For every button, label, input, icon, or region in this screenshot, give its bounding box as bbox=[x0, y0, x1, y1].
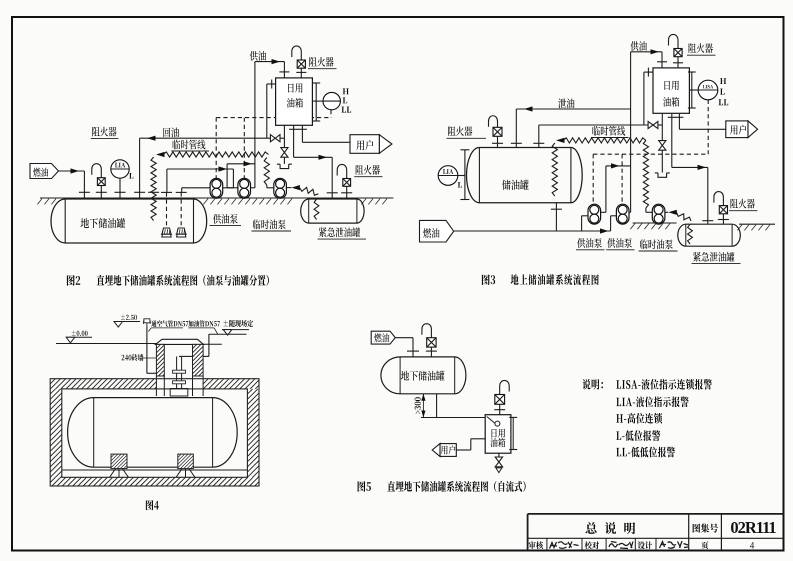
valve drain line fig3 bbox=[648, 121, 653, 128]
wire day3 drain stub bbox=[661, 113, 663, 141]
pump P2 fig3 bbox=[616, 204, 629, 224]
flange tick suction1 bbox=[161, 191, 172, 193]
wire day tank to instrument bbox=[312, 100, 323, 102]
vent gooseneck tank3 bbox=[489, 116, 498, 128]
hose to pump3 bbox=[264, 158, 269, 186]
ground hatch left bbox=[37, 199, 56, 205]
label 临时油泵 fig2 bbox=[253, 219, 286, 229]
svg-text:4: 4 bbox=[750, 541, 755, 551]
node 用户 flag fig2 bbox=[350, 135, 379, 154]
drain valve fig5 bbox=[498, 453, 500, 457]
wire arrester to day3 bbox=[677, 57, 679, 68]
vent gooseneck day tank fig2 bbox=[292, 46, 302, 60]
flange tick day tank inlet bbox=[279, 71, 289, 73]
label LL fig3 bbox=[719, 99, 729, 105]
label 阻火器 emergency fig3 bbox=[730, 199, 754, 209]
label 紧急泄油罐 fig3 bbox=[693, 252, 734, 262]
ground hatch pump pad fig2 bbox=[203, 199, 292, 205]
wire hose to pump3 inlet bbox=[266, 185, 268, 188]
label 阻火器 day tank fig2 bbox=[309, 57, 333, 67]
tank 日用油箱 fig5 bbox=[485, 415, 511, 454]
float valve fig5 bbox=[487, 417, 495, 424]
wire hose to pump3 fig3 bbox=[645, 208, 647, 212]
wire emergency feed fig3 bbox=[671, 113, 673, 167]
tank 地下储油罐 bbox=[51, 199, 207, 243]
arrow supply to day tank bbox=[272, 59, 281, 64]
dashed signal pump2 fig3 bbox=[621, 154, 623, 204]
label 总说明 bbox=[586, 522, 636, 534]
wire return oil bbox=[140, 137, 271, 139]
label 紧急泄油罐 fig2 bbox=[319, 227, 360, 237]
label 油箱 fig3 bbox=[663, 97, 679, 107]
funnel fig3 bbox=[655, 173, 670, 177]
arrow pump1 discharge bbox=[219, 166, 228, 171]
pit floor hatch bbox=[50, 477, 259, 486]
instrument LISA fig3 bbox=[698, 80, 718, 100]
note line1 bbox=[616, 379, 712, 390]
tank 储油罐 bbox=[466, 148, 582, 203]
flange tick vent fig5 bbox=[426, 350, 437, 352]
node 燃油 inlet flag fig3 bbox=[420, 220, 454, 242]
flange tick day5 vent bbox=[494, 409, 505, 411]
note line2 bbox=[616, 396, 688, 407]
dashed signal LISA down bbox=[707, 100, 709, 154]
ground line fig2 bbox=[40, 197, 393, 199]
label 临时油泵 fig3 bbox=[640, 239, 673, 249]
label H fig3 bbox=[720, 78, 726, 84]
pit floor line bbox=[62, 469, 248, 471]
level mark ±0.00 bbox=[72, 331, 88, 336]
node 燃油 inlet flag bbox=[30, 164, 59, 179]
label 校对 bbox=[585, 541, 599, 549]
label L of LIA bbox=[129, 173, 133, 179]
well walls through roof bbox=[155, 376, 157, 396]
well cap fig4 bbox=[156, 339, 204, 344]
wire LIA to tank1 bbox=[119, 178, 121, 198]
flange tick arrester pipe bbox=[96, 191, 107, 193]
label 通空气管DN57 bbox=[151, 320, 188, 327]
arrow return oil bbox=[147, 136, 156, 141]
dimension >300 bbox=[422, 394, 424, 418]
dashed signal drop pump1 bbox=[215, 118, 217, 179]
tank saddle right bbox=[178, 454, 194, 469]
note line3 bbox=[616, 413, 662, 424]
wire arrester to tank3 bbox=[497, 136, 499, 147]
pump 临时油泵 P3 bbox=[274, 178, 287, 198]
ground pad pump3 fig3 bbox=[633, 222, 677, 224]
label 阻火器 emergency fig2 bbox=[356, 165, 380, 175]
flame arrester fig5 tank bbox=[427, 338, 436, 347]
arrow overflow bbox=[524, 106, 533, 111]
hose suction into tank1 bbox=[151, 157, 156, 221]
label L of LIA fig3 bbox=[458, 182, 462, 188]
hose 临时管线 fig3 bbox=[563, 138, 646, 143]
wire arrester to day tank bbox=[300, 68, 302, 78]
wire arrester to emtank fig3 bbox=[722, 214, 724, 224]
title block outline bbox=[527, 514, 529, 551]
flame arrester day3 bbox=[674, 49, 682, 57]
signature 1 bbox=[550, 542, 579, 549]
wire 泄油 line to tank3 bbox=[516, 108, 630, 110]
level mark ±2.50 bbox=[121, 315, 137, 320]
pit roof hatch right bbox=[203, 379, 259, 389]
wire fuel to tank5 bbox=[395, 337, 413, 339]
caption 图4 bbox=[146, 500, 159, 510]
gauge standpipe day3 bbox=[691, 72, 693, 108]
wire vent pipe fig4 bbox=[146, 326, 148, 373]
wire 供油 supply elbow bbox=[255, 61, 285, 63]
vent gooseneck fig5 day bbox=[500, 380, 510, 394]
flange tick emergency fig3 bbox=[702, 220, 713, 222]
wire pump2 suction fig3 bbox=[611, 215, 617, 217]
wire emergency feed fig2 bbox=[293, 125, 295, 157]
label 油箱 fig5 bbox=[490, 438, 505, 447]
arrow pump1 discharge fig3 bbox=[611, 163, 620, 168]
hose suction tank3 bbox=[552, 143, 557, 196]
fill pipe flanges bbox=[173, 370, 186, 373]
pit roof hatch left bbox=[50, 379, 156, 389]
ground hatch right of emergency tank bbox=[361, 199, 387, 205]
wire day tank bottom stub1 bbox=[283, 125, 285, 147]
flange tick tank3 drain inlet bbox=[533, 142, 544, 144]
strainer 2 in tank bbox=[177, 228, 186, 234]
arrow fuel inlet bbox=[71, 168, 80, 173]
flame arrester emergency fig3 bbox=[719, 206, 727, 214]
wire fill pipe outside bbox=[208, 334, 210, 356]
note line4 bbox=[616, 430, 660, 441]
valve day3 drain bbox=[659, 141, 666, 146]
pump P1 fig3 bbox=[588, 204, 601, 224]
label LL fig2 bbox=[341, 107, 351, 113]
wire LIA to gauge bbox=[458, 175, 465, 177]
wire fuel line fig3 bbox=[454, 230, 611, 232]
wire pump1 suction bbox=[182, 187, 211, 189]
arrow fuel line fig3 bbox=[600, 228, 609, 233]
wire pump1 discharge fig3 bbox=[601, 211, 606, 213]
label 加油管DN57 bbox=[188, 320, 219, 327]
label 图集号 bbox=[693, 523, 718, 532]
wire user to day5 bbox=[456, 449, 471, 451]
label L fig3 bbox=[720, 89, 724, 95]
note 说明 header bbox=[582, 379, 603, 390]
label 阻火器 day3 bbox=[689, 43, 713, 53]
wire supply elbow fig3 bbox=[631, 51, 662, 53]
flame arrester fig5 day bbox=[495, 395, 505, 405]
wire arrester to tank1 bbox=[100, 186, 102, 199]
flange tick emergency vent bbox=[341, 192, 352, 194]
label 临时管线 fig3 bbox=[592, 126, 625, 136]
pit outer wall fig4 bbox=[50, 379, 259, 486]
label 阻火器 tank3 bbox=[448, 126, 472, 136]
label 供油泵 fig3 a bbox=[577, 238, 602, 248]
tank 日用油箱 fig2 bbox=[276, 78, 313, 125]
label 泄油 bbox=[558, 98, 574, 108]
level mark ±随现场定 bbox=[224, 320, 253, 327]
funnel drain fig2 bbox=[277, 164, 292, 168]
instrument LIA fig3 bbox=[438, 166, 458, 186]
title row dividers bbox=[546, 538, 548, 550]
label 临时管线 bbox=[173, 140, 206, 150]
tank 紧急泄油罐 fig3 bbox=[678, 224, 741, 246]
label 日用 fig3 bbox=[664, 81, 678, 90]
flange tick fuel fig5 bbox=[407, 350, 419, 352]
wire arrester to tank5 bbox=[430, 347, 432, 357]
flange tick day3 inlet bbox=[657, 61, 667, 63]
tank fig4 shell bbox=[68, 398, 238, 468]
well left wall bbox=[156, 344, 164, 376]
node 用户 flag fig5 bbox=[440, 444, 456, 457]
flange tick return pipe bbox=[134, 191, 145, 193]
dashed signal pump1 fig3 bbox=[592, 154, 594, 204]
vent cap symbol fig4 bbox=[144, 319, 150, 323]
dashed signal line horizontal bbox=[216, 117, 331, 119]
flame arrester tank1 bbox=[97, 178, 105, 186]
hose 临时管线 horizontal bbox=[163, 152, 269, 157]
signature 3 bbox=[660, 541, 689, 548]
flange tick emvent fig3 bbox=[718, 219, 729, 221]
flange tick day3 vent bbox=[673, 62, 683, 64]
dashed suction pipe strainer2 bbox=[180, 192, 182, 226]
instrument LIA tank1 bbox=[111, 160, 129, 178]
wire supply riser to day tank bbox=[254, 62, 256, 188]
ground level line fig4 bbox=[56, 343, 156, 345]
stub tick day tank3 overflow bbox=[647, 68, 649, 77]
hose inside emergency tank bbox=[314, 199, 319, 220]
label H fig2 bbox=[343, 88, 349, 94]
valve drain fig2 bbox=[281, 148, 288, 153]
dashed signal horizontal fig3 bbox=[593, 153, 708, 155]
wire tank5 outlet bbox=[436, 394, 438, 418]
caption 图2 bbox=[67, 275, 80, 286]
wire overflow day tank bbox=[267, 83, 276, 85]
saddle legs left bbox=[110, 469, 116, 478]
wire pump1 suction fig3 bbox=[582, 215, 588, 217]
flame arrester day tank fig2 bbox=[297, 60, 305, 68]
stub tick day tank left overflow bbox=[271, 80, 273, 89]
instrument level HLL fig2 bbox=[323, 92, 340, 109]
label 供油 fig2 bbox=[250, 51, 266, 61]
pit inner wall fig4 bbox=[62, 389, 248, 477]
flange tick suction2 bbox=[176, 191, 187, 193]
arrow emergency feed fig3 bbox=[698, 165, 707, 170]
tank 地下储油罐 fig5 bbox=[381, 357, 466, 394]
gauge standpipe tank3 bbox=[464, 150, 466, 200]
hose pump3 to emergency tank bbox=[286, 187, 292, 189]
flange tick tank3 overflow inlet bbox=[511, 142, 522, 144]
wire supply riser fig3 bbox=[630, 52, 632, 213]
label 240砖墙 bbox=[122, 354, 144, 361]
dashed signal drop pump2 bbox=[243, 118, 245, 179]
flame arrester emergency fig2 bbox=[343, 179, 351, 187]
ground hatch right of emtank fig3 bbox=[739, 223, 775, 225]
vent gooseneck fig5 tank bbox=[422, 324, 432, 338]
pit right wall hatch bbox=[247, 389, 259, 477]
tank 日用油箱 fig3 bbox=[653, 68, 689, 113]
tank 紧急泄油罐 fig2 bbox=[301, 199, 364, 223]
flange tick day tank vent bbox=[296, 71, 306, 73]
wire user line fig2 bbox=[301, 125, 303, 142]
label 日用 fig2 bbox=[288, 83, 302, 92]
vent gooseneck emergency fig3 bbox=[714, 192, 724, 206]
pump 供油泵 P1 bbox=[210, 178, 223, 198]
svg-text:02R111: 02R111 bbox=[730, 518, 776, 537]
wire fuel inlet bbox=[59, 170, 85, 172]
wire day3 to LISA bbox=[689, 89, 698, 91]
wire overflow day3 bbox=[643, 72, 645, 125]
label 回油 bbox=[163, 127, 179, 137]
arrow temp hose fig3 bbox=[556, 138, 565, 143]
vent gooseneck emergency fig2 bbox=[337, 164, 347, 178]
label L fig2 bbox=[343, 97, 347, 103]
strainer 1 in tank bbox=[162, 228, 171, 234]
saddle legs right bbox=[176, 469, 182, 478]
wire day3 drain to funnel bbox=[661, 150, 663, 172]
flame arrester tank3 bbox=[493, 127, 502, 136]
tank saddle left bbox=[111, 454, 127, 469]
flange tick tank3 vent bbox=[492, 142, 503, 144]
label 油箱 fig2 bbox=[287, 98, 303, 108]
node 燃油 flag fig5 bbox=[371, 331, 395, 344]
flange tick fuel pipe bbox=[79, 191, 90, 193]
signature 2 bbox=[609, 542, 633, 549]
flange tick hose pipe bbox=[148, 191, 159, 193]
gauge ticks right fig5 bbox=[512, 417, 514, 449]
manhole neck fig4 bbox=[170, 389, 188, 397]
wire user line fig3 bbox=[678, 113, 680, 129]
pump 供油泵 P2 bbox=[238, 178, 251, 198]
gauge standpipe day tank fig2 bbox=[315, 83, 317, 121]
label 阻火器 (tank1) bbox=[92, 127, 116, 137]
well right wall bbox=[193, 344, 204, 376]
note line5 bbox=[616, 447, 675, 458]
flange tick tank3 bottom bbox=[551, 208, 562, 210]
label 地下储油罐 bbox=[81, 218, 126, 228]
wire pump1 discharge loop bbox=[167, 168, 234, 170]
arrow temp hose left bbox=[156, 152, 165, 157]
wire drain line fig3 bbox=[539, 124, 648, 126]
arrow hose into pump3 fig3 bbox=[668, 210, 677, 215]
vent gooseneck tank1 bbox=[92, 164, 102, 178]
label 供油 fig3 bbox=[631, 41, 647, 51]
label 地下储油罐 fig5 bbox=[401, 371, 445, 381]
arrow pump2 discharge bbox=[244, 161, 253, 166]
arrow hose into pump3 bbox=[291, 185, 300, 190]
node 用户 flag fig3 bbox=[726, 121, 748, 138]
pump P3 fig3 bbox=[652, 204, 665, 224]
label 日用 fig5 bbox=[492, 429, 505, 438]
wire drain to funnel bbox=[283, 157, 285, 164]
vent gooseneck day3 bbox=[669, 34, 679, 48]
label 审核 bbox=[529, 541, 543, 549]
dashed suction pipe strainer1 bbox=[166, 192, 168, 226]
label 供油泵 fig2 bbox=[213, 214, 238, 224]
dashed signal from instrument bbox=[330, 110, 332, 118]
fill pipe inside well bbox=[179, 355, 193, 357]
flange tick emergency pipe bbox=[327, 192, 338, 194]
arrow supply fig3 bbox=[651, 49, 660, 54]
wire arrester to emergency tank bbox=[346, 186, 348, 199]
wire arrester to day5 bbox=[499, 404, 501, 414]
flange tick LIA pipe bbox=[115, 191, 126, 193]
caption 图3 bbox=[482, 274, 495, 285]
wire tank3 bottom stub bbox=[555, 203, 557, 231]
caption 图5 bbox=[358, 481, 371, 492]
label 页 bbox=[701, 541, 708, 549]
pit left wall hatch bbox=[50, 389, 62, 477]
label 设计 bbox=[638, 541, 652, 549]
hose pump3 to emtank fig3 bbox=[665, 211, 668, 213]
wire pump2 discharge loop bbox=[227, 163, 255, 165]
label 储油罐 bbox=[502, 180, 529, 190]
arrow emergency feed bbox=[319, 155, 328, 160]
label 供油泵 fig3 b bbox=[607, 238, 632, 248]
hose drop to pump3 fig3 bbox=[643, 140, 648, 208]
valve return fig2 bbox=[270, 135, 275, 142]
